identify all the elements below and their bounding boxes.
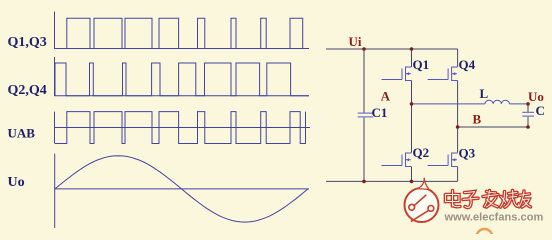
svg-text:Q1: Q1 — [413, 57, 430, 72]
svg-text:Ui: Ui — [349, 34, 362, 49]
svg-text:B: B — [473, 112, 482, 127]
svg-text:Q2,Q4: Q2,Q4 — [8, 83, 47, 98]
svg-text:UAB: UAB — [8, 126, 36, 141]
svg-text:Q1,Q3: Q1,Q3 — [8, 35, 47, 50]
svg-text:Uo: Uo — [8, 175, 25, 190]
svg-text:Q2: Q2 — [413, 145, 430, 160]
svg-text:L: L — [480, 86, 489, 101]
svg-text:Uo: Uo — [528, 89, 544, 104]
svg-text:C: C — [536, 103, 545, 118]
svg-text:www.elecfans.com: www.elecfans.com — [444, 212, 544, 224]
svg-text:Q4: Q4 — [459, 57, 476, 72]
svg-text:A: A — [381, 88, 391, 103]
svg-text:Q3: Q3 — [459, 146, 476, 161]
svg-text:C1: C1 — [372, 105, 388, 120]
